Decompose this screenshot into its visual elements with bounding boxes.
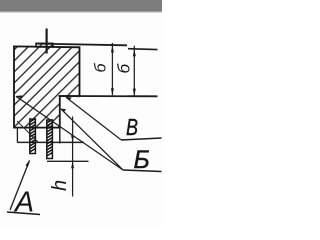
svg-text:б: б [93,63,110,73]
underline V [121,138,162,140]
leader B1: long to left edge [16,96,123,170]
svg-text:h: h [49,180,71,191]
pin [45,29,47,54]
bar 1 (hatched stud) [30,119,36,154]
leader B2 [61,109,123,170]
lower plate left edge [16,128,18,143]
leader V [66,97,121,140]
main block (section, hatched) [14,46,80,127]
dimension б #2 vertical with arrows [133,46,135,96]
bottom reference line [59,95,158,97]
svg-text:Б: Б [134,146,150,174]
h dimension [72,117,74,197]
svg-text:б: б [115,63,134,74]
top extension line B (right) [128,48,158,51]
underline B [123,170,162,172]
underline A [7,212,40,215]
bar 2 (hatched stud) [47,120,53,159]
leader A: from label to bar1 bottom [10,161,30,211]
notch / plate right edge [59,96,61,144]
tab on top of block (hatched) [36,43,53,47]
scan gray band [0,0,162,12]
lower plate bottom / h top reference [17,141,84,143]
svg-text:В: В [126,114,138,140]
top extension line A (tab level) [36,44,127,46]
mystery short diagonal [17,121,38,142]
h bottom reference line [47,160,89,162]
dimension б #1 vertical with arrows [111,43,113,95]
svg-text:А: А [13,187,34,219]
